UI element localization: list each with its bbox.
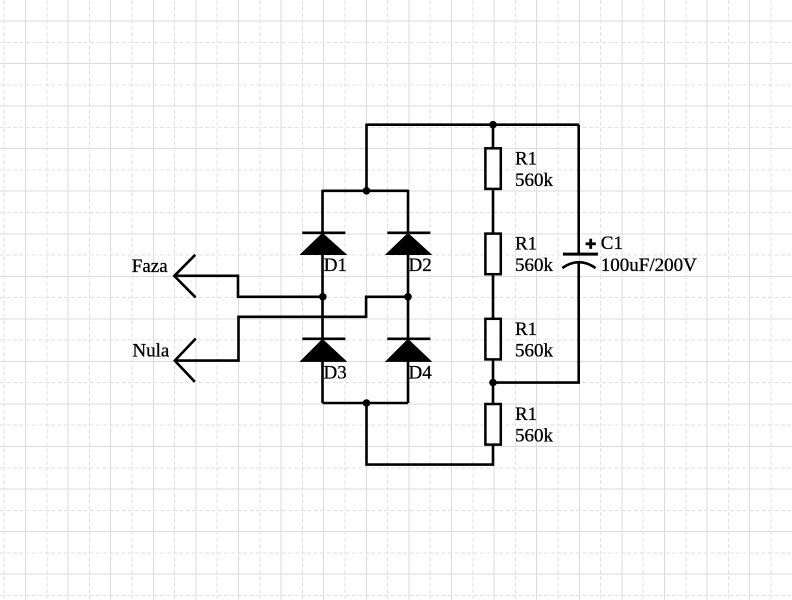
svg-text:C1: C1 (601, 233, 623, 254)
node R3-R4 junction (489, 379, 497, 387)
wire top rail (367, 123, 579, 126)
wire R1-R2 (492, 189, 495, 233)
svg-text:R1: R1 (515, 234, 537, 255)
wire Nula lead (175, 297, 408, 361)
diode D2 (387, 233, 432, 276)
svg-text:D3: D3 (324, 362, 347, 383)
node left bridge junction (319, 293, 327, 301)
svg-text:R1: R1 (515, 404, 537, 425)
diode D3 (301, 339, 347, 384)
resistor R1 (bottom) (485, 404, 553, 447)
wire Faza lead (174, 276, 322, 297)
Nula arrow (175, 339, 196, 382)
wire right column middle (407, 254, 410, 340)
resistor R1 (third) (485, 319, 553, 362)
svg-text:D1: D1 (324, 255, 347, 276)
wire bridge top feed (365, 124, 368, 191)
svg-text:560k: 560k (515, 170, 554, 191)
wire left column middle (321, 254, 324, 340)
diode D4 (387, 339, 433, 384)
svg-text:Faza: Faza (132, 256, 168, 277)
Faza arrow (174, 255, 195, 298)
wire R2-R3 (492, 274, 495, 318)
wire bottom feed (367, 403, 494, 465)
svg-text:Nula: Nula (132, 341, 170, 362)
wire left column upper (321, 190, 324, 233)
wire right column lower (407, 360, 410, 403)
wire R3-node (492, 360, 495, 404)
svg-text:D2: D2 (409, 255, 432, 276)
svg-text:100uF/200V: 100uF/200V (601, 255, 697, 276)
node bridge top junction (363, 187, 371, 195)
node top-rail junction (489, 121, 497, 129)
wire left column lower (321, 360, 324, 403)
diode D1 (301, 233, 347, 276)
svg-text:R1: R1 (515, 148, 537, 169)
node right bridge junction (404, 293, 412, 301)
capacitor C1 (562, 125, 697, 276)
wire bridge top (323, 190, 409, 193)
svg-text:R1: R1 (515, 319, 537, 340)
node bridge bottom junction (363, 399, 371, 407)
wire capacitor branch bottom (493, 263, 579, 383)
resistor R1 (top) (485, 148, 553, 191)
svg-text:560k: 560k (515, 340, 554, 361)
wire right column upper (407, 190, 410, 233)
resistor R1 (second) (485, 234, 553, 277)
wire resistor chain top (492, 125, 495, 148)
svg-text:D4: D4 (409, 362, 433, 383)
wire bridge bottom (323, 402, 409, 405)
svg-text:560k: 560k (515, 426, 554, 447)
svg-text:560k: 560k (515, 255, 554, 276)
